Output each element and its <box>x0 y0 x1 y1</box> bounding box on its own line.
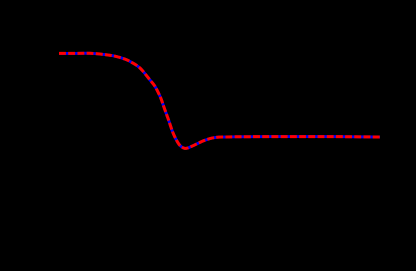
red dashed curve <box>59 53 380 148</box>
blue solid curve <box>59 53 380 148</box>
